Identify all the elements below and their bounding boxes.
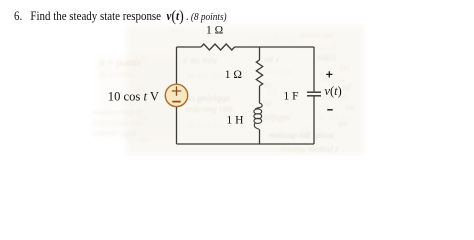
svg-text:ml: ml — [140, 53, 150, 63]
wire: left branch upper — [176, 47, 178, 84]
wire: bottom — [177, 143, 315, 145]
source V1 minus terminal — [172, 101, 180, 103]
svg-text:wm estd brto: wm estd brto — [247, 34, 296, 44]
svg-text:lm: lm — [345, 102, 355, 112]
svg-text:10 cos t V: 10 cos t V — [108, 90, 159, 104]
svg-text:noitsup edt gnizu: noitsup edt gnizu — [269, 131, 334, 141]
label v(t) minus polarity — [327, 109, 332, 111]
capacitor C1 1F plate bottom — [307, 95, 321, 97]
wire: right branch upper — [313, 47, 315, 91]
svg-text:answer app: answer app — [92, 129, 136, 139]
faint scan mottling rows (decorative) — [136, 34, 351, 145]
svg-text:v(t): v(t) — [325, 84, 342, 98]
label v(t) plus polarity — [326, 71, 332, 77]
svg-text:ed: ed — [342, 82, 351, 92]
svg-text:lis: lis — [263, 80, 272, 90]
svg-text:he across: he across — [99, 69, 133, 79]
wire: right branch lower — [313, 97, 315, 145]
svg-text:monitoring di: monitoring di — [91, 108, 143, 118]
svg-text:eo slm fjd: eo slm fjd — [186, 120, 223, 131]
inductor L1 1H (middle vertical coil) — [254, 103, 262, 130]
resistor R1 1ohm (top horizontal) — [201, 44, 235, 50]
svg-text:dk: dk — [140, 135, 150, 145]
problem title text — [14, 8, 227, 26]
wire: left branch lower — [176, 107, 178, 144]
wire: top-left segment — [177, 46, 202, 48]
resistor R2 1ohm (middle vertical) — [256, 60, 262, 86]
svg-text:1 Ω: 1 Ω — [225, 69, 242, 81]
node A: middle branch top junction — [259, 47, 261, 60]
svg-text:1 H: 1 H — [227, 115, 244, 127]
svg-text:vg: vg — [263, 97, 272, 107]
labels — [108, 25, 342, 127]
svg-text:rewzna mottod z: rewzna mottod z — [280, 144, 339, 154]
svg-text:it + points: it + points — [99, 58, 141, 69]
source V1 plus terminal — [172, 86, 181, 95]
wire: middle below L1 — [259, 130, 261, 144]
svg-text:mslcong sith: mslcong sith — [185, 105, 233, 115]
svg-text:mzvm unt: mzvm unt — [300, 30, 335, 40]
svg-text:sld(t): sld(t) — [317, 52, 336, 62]
ghost bleed-through text (decorative scan artifacts) — [91, 30, 355, 154]
svg-text:dm wjo: dm wjo — [265, 67, 293, 77]
svg-text:determine rko: determine rko — [91, 119, 144, 129]
capacitor C1 1F plate top — [307, 91, 321, 93]
source V1: 10 cos t V (circle symbol) — [165, 84, 187, 106]
svg-text:d ms nslq: d ms nslq — [183, 55, 218, 65]
wire: top-right segment — [235, 46, 315, 48]
svg-text:1 F: 1 F — [284, 91, 299, 103]
svg-text:qo: qo — [338, 118, 348, 128]
svg-text:no gniylqqa: no gniylqqa — [185, 94, 230, 104]
svg-text:od x: od x — [264, 54, 279, 64]
wire: middle between R2 and L1 — [259, 86, 261, 103]
svg-text:pilfqga: pilfqga — [262, 112, 290, 123]
scanned page faint warm veil — [126, 25, 364, 156]
svg-text:1 Ω: 1 Ω — [206, 25, 223, 37]
svg-text:(s): (s) — [340, 62, 350, 72]
